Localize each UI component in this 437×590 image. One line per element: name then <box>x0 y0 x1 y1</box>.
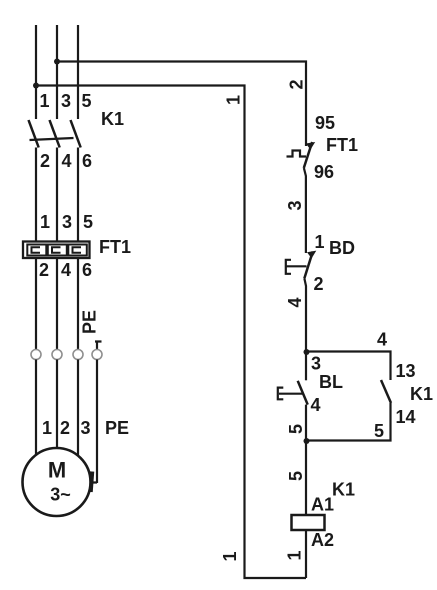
terminal circle L3 <box>73 350 83 360</box>
contactor K1 linkage <box>30 138 74 140</box>
svg-text:13: 13 <box>396 361 416 381</box>
FT1 thermal release symbol <box>287 151 307 157</box>
wire L1 top <box>35 25 37 119</box>
svg-text:2: 2 <box>314 274 324 294</box>
BD NC contact blade <box>304 252 313 279</box>
svg-text:3: 3 <box>61 91 71 111</box>
svg-text:4: 4 <box>285 297 305 307</box>
svg-text:14: 14 <box>396 407 416 427</box>
node junction L2 feed <box>54 59 60 65</box>
svg-text:3: 3 <box>311 354 321 374</box>
contactor K1 pole 1 blade <box>29 120 39 148</box>
svg-text:6: 6 <box>82 151 92 171</box>
terminal circle L2 <box>52 350 62 360</box>
svg-text:3: 3 <box>285 200 305 210</box>
svg-text:PE: PE <box>80 310 100 334</box>
svg-text:K1: K1 <box>332 480 355 500</box>
svg-text:4: 4 <box>61 260 71 280</box>
wire control return from L1 <box>36 86 306 579</box>
wire junction to coil <box>305 441 307 516</box>
svg-text:K1: K1 <box>410 384 433 404</box>
node junction branch bottom <box>304 438 310 444</box>
svg-text:4: 4 <box>311 395 321 415</box>
overload relay FT1 body <box>23 242 90 259</box>
wire L3 middle <box>77 148 79 350</box>
FT1 NC contact arrow <box>306 142 315 150</box>
svg-text:1: 1 <box>40 91 50 111</box>
svg-text:5: 5 <box>83 212 93 232</box>
BL NO contact blade <box>298 381 308 405</box>
wire coil to bottom <box>305 530 307 578</box>
FT1 element 2 heater <box>52 247 61 253</box>
svg-text:5: 5 <box>374 421 384 441</box>
svg-text:1: 1 <box>42 418 52 438</box>
svg-text:3: 3 <box>81 418 91 438</box>
svg-text:5: 5 <box>286 471 306 481</box>
svg-text:PE: PE <box>105 418 129 438</box>
node junction L1 return <box>33 83 39 89</box>
svg-text:2: 2 <box>60 418 70 438</box>
FT1 element 1 box <box>27 245 46 256</box>
BL plunger rod <box>279 393 303 395</box>
svg-text:2: 2 <box>287 79 307 89</box>
svg-text:2: 2 <box>40 151 50 171</box>
svg-text:BD: BD <box>329 238 355 258</box>
svg-text:1: 1 <box>285 550 305 560</box>
svg-text:BL: BL <box>319 372 343 392</box>
svg-text:A1: A1 <box>311 495 334 515</box>
wire L3 top <box>77 25 79 119</box>
svg-text:K1: K1 <box>101 109 124 129</box>
svg-text:5: 5 <box>286 424 306 434</box>
BL plunger cap <box>278 388 284 400</box>
svg-text:FT1: FT1 <box>326 135 358 155</box>
BD plunger rod <box>287 265 307 267</box>
contactor K1 pole 2 blade <box>50 120 60 148</box>
svg-text:1: 1 <box>220 551 240 561</box>
terminal circle PE <box>92 350 102 360</box>
svg-text:6: 6 <box>82 260 92 280</box>
svg-text:95: 95 <box>315 113 335 133</box>
svg-text:1: 1 <box>40 212 50 232</box>
FT1 element 3 box <box>68 245 87 256</box>
svg-text:1: 1 <box>224 95 244 105</box>
wire L2 middle <box>56 148 58 350</box>
svg-text:1: 1 <box>315 232 325 252</box>
svg-text:4: 4 <box>377 330 387 350</box>
wire motor U <box>35 360 37 456</box>
svg-text:2: 2 <box>39 260 49 280</box>
FT1 element 2 box <box>48 245 67 256</box>
coil K1 <box>292 515 325 530</box>
K1 aux contact blade <box>381 380 391 403</box>
BD plunger cap <box>286 260 291 274</box>
FT1 element 3 heater <box>73 247 82 253</box>
wire BL stub <box>305 352 307 381</box>
terminal circle L1 <box>31 350 41 360</box>
contactor K1 pole 3 blade <box>71 120 81 148</box>
wire BL to coil junction <box>305 405 307 441</box>
svg-text:96: 96 <box>314 162 334 182</box>
svg-text:M: M <box>48 458 66 483</box>
wire branch to K1 aux <box>306 352 391 381</box>
wire K1 aux to bottom branch <box>306 403 391 441</box>
wire motor V <box>56 360 58 449</box>
FT1 NC contact blade <box>304 142 312 168</box>
wire L1 middle <box>35 148 37 350</box>
svg-text:A2: A2 <box>311 530 334 550</box>
wire L2 top <box>56 25 58 119</box>
svg-text:FT1: FT1 <box>99 237 131 257</box>
wire PE to motor <box>91 360 97 484</box>
wire BD to BL <box>304 279 306 353</box>
wire 96 to BD <box>304 168 306 253</box>
FT1 element 1 heater <box>32 247 41 253</box>
wire control feed from L2 <box>57 62 306 147</box>
svg-text:5: 5 <box>82 91 92 111</box>
PE bond bar <box>91 472 93 493</box>
motor M1 circle <box>23 448 91 516</box>
svg-text:3~: 3~ <box>50 485 71 505</box>
node junction BL branch top <box>304 349 310 355</box>
wire motor W <box>77 360 79 456</box>
svg-text:3: 3 <box>62 212 72 232</box>
wire PE drop <box>95 342 102 350</box>
svg-text:4: 4 <box>62 151 72 171</box>
BD NC contact arrow <box>307 251 316 259</box>
